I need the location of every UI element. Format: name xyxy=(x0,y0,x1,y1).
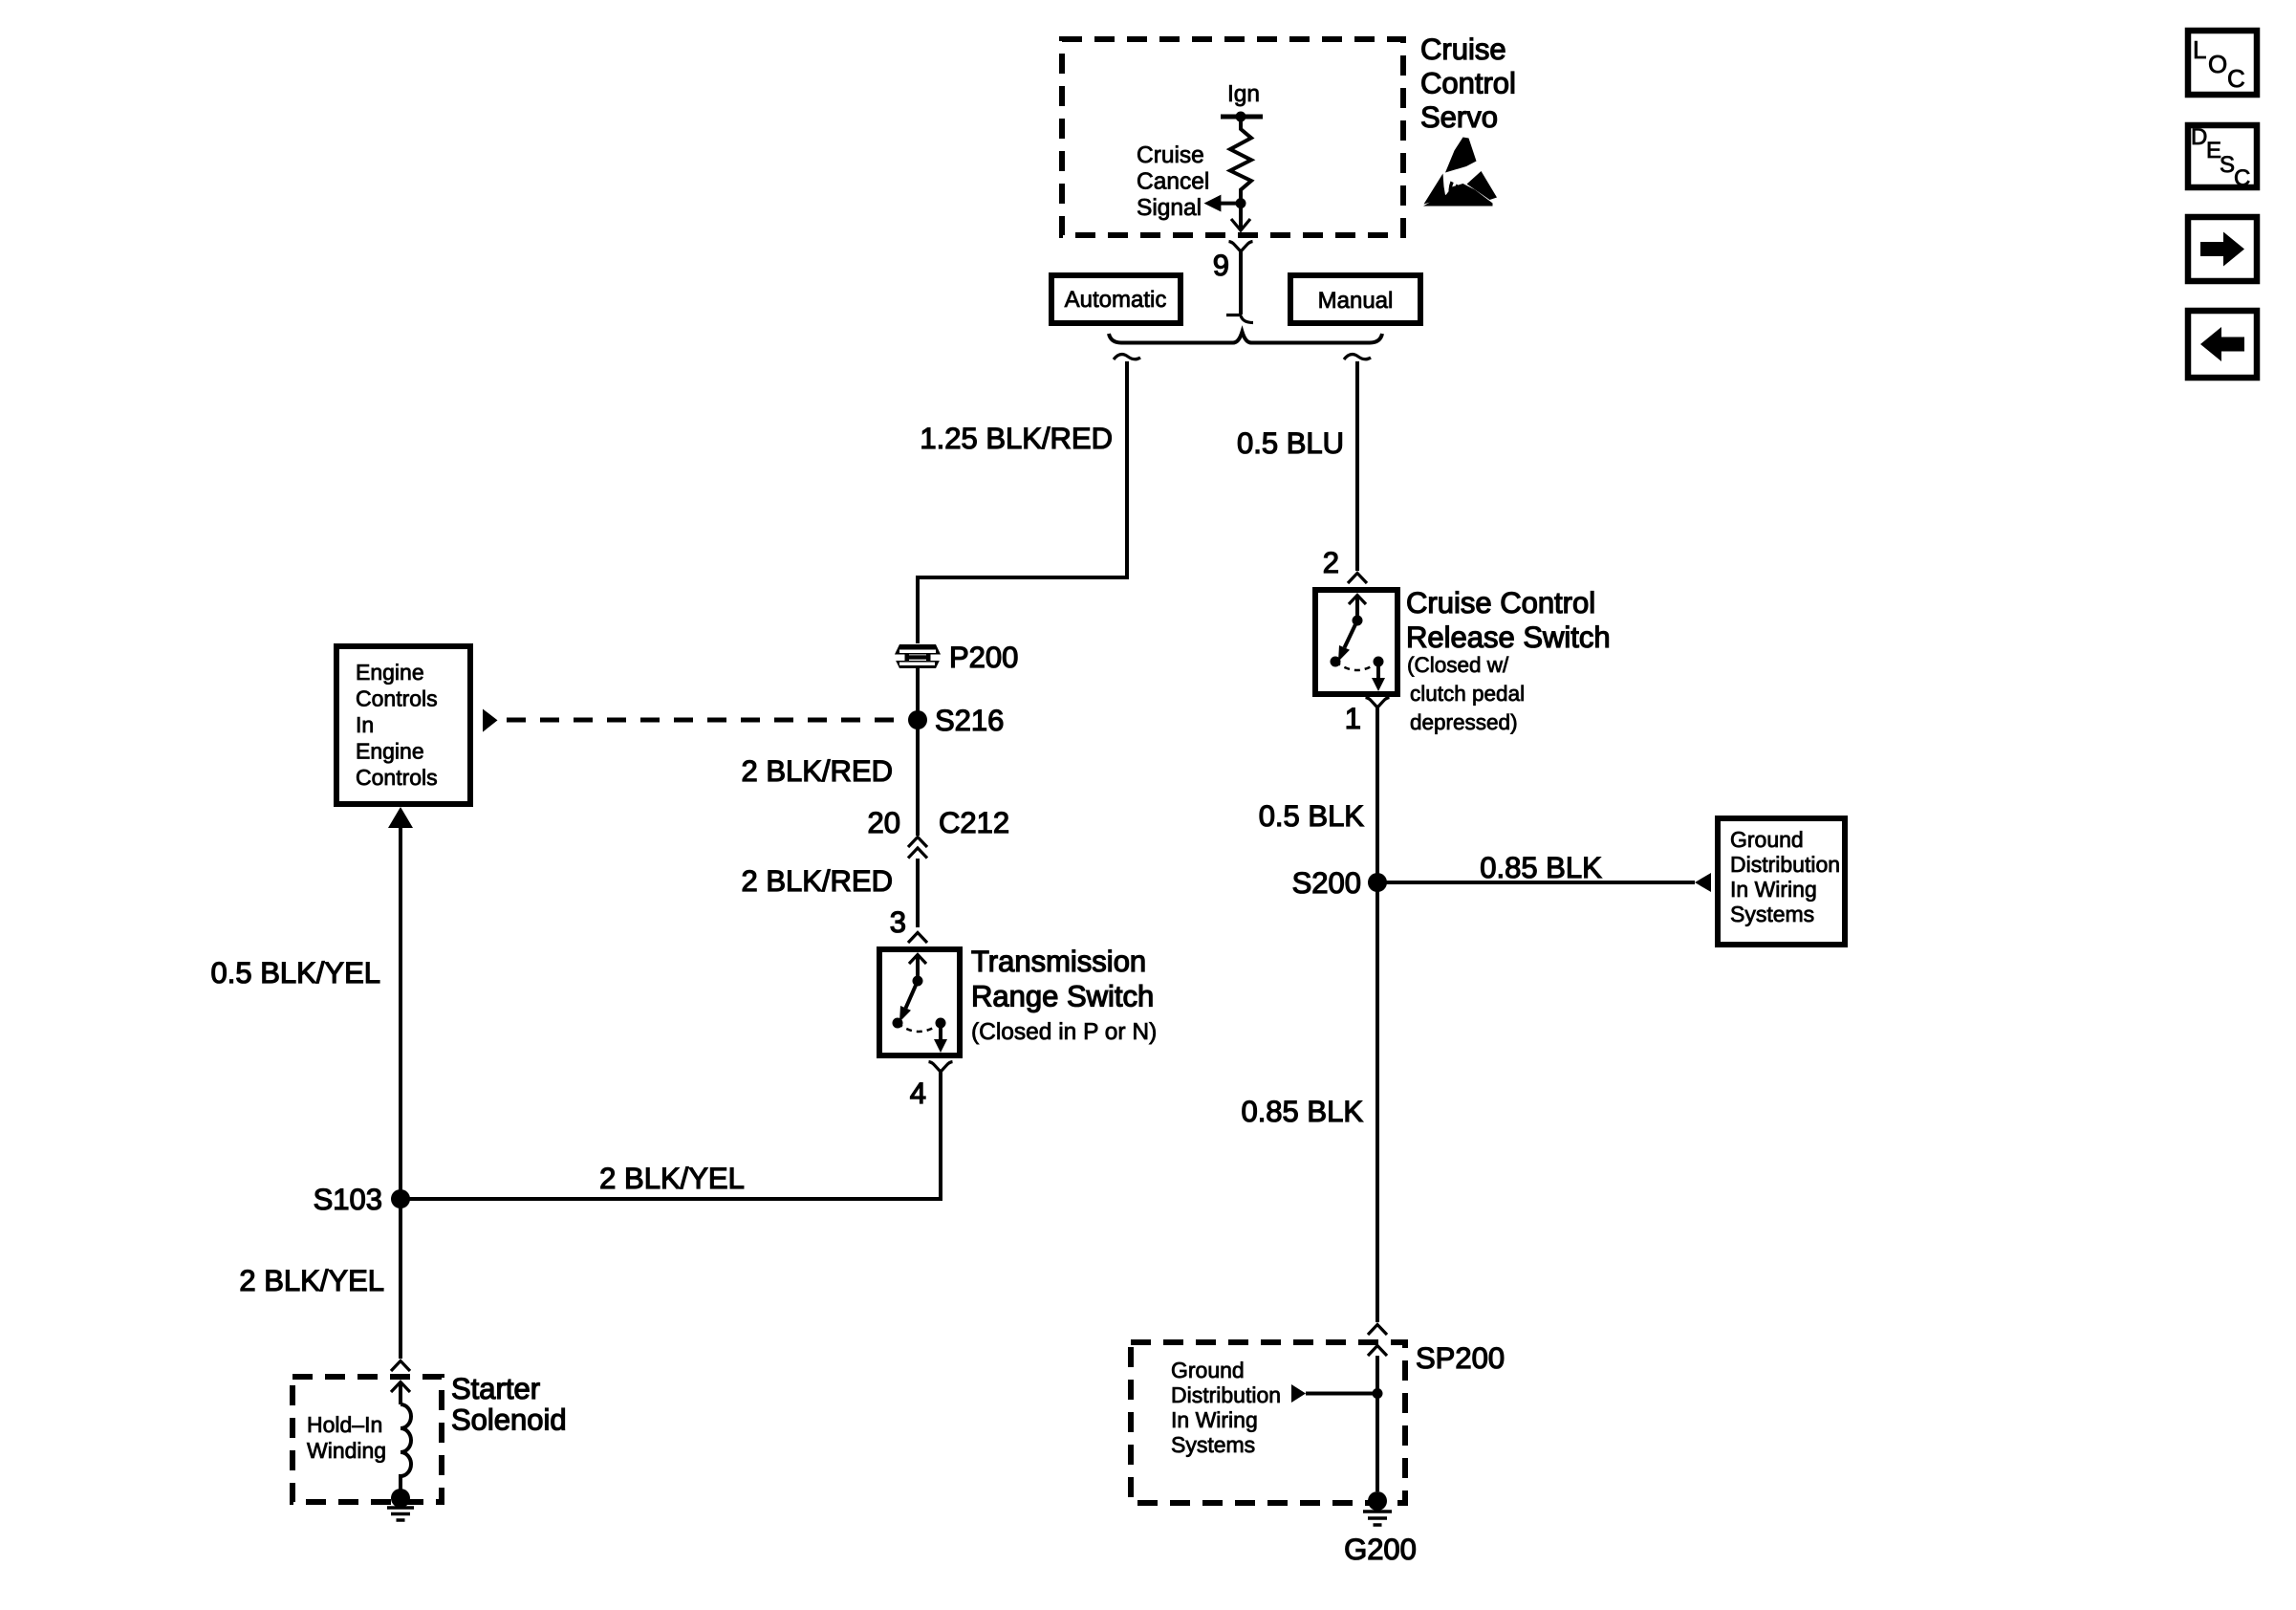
pin 9 male breakout connector xyxy=(1226,315,1253,323)
svg-text:2 BLK/YEL: 2 BLK/YEL xyxy=(599,1162,745,1195)
wire: pin 1 to S200 (0.5 BLK) xyxy=(1375,707,1379,882)
Engine Controls box text xyxy=(356,660,438,790)
splice S200 dot xyxy=(1368,873,1387,892)
wire: SP200 to G200 xyxy=(1375,1356,1379,1491)
nav icon back arrow button xyxy=(2188,311,2257,378)
svg-text:2 BLK/RED: 2 BLK/RED xyxy=(741,864,893,898)
svg-text:0.85 BLK: 0.85 BLK xyxy=(1241,1095,1363,1128)
svg-text:D: D xyxy=(2191,124,2207,150)
Ign junction dot xyxy=(1236,112,1246,122)
svg-text:G200: G200 xyxy=(1344,1533,1417,1566)
nav icon forward arrow button xyxy=(2188,217,2257,281)
svg-text:2 BLK/YEL: 2 BLK/YEL xyxy=(239,1264,384,1297)
SP200 male connector xyxy=(1368,1325,1387,1336)
svg-text:Distribution: Distribution xyxy=(1730,852,1840,877)
svg-text:P200: P200 xyxy=(949,641,1018,674)
wire: S200 branch to ground distribution (0.85 BLK) xyxy=(1377,881,1695,884)
starter solenoid male connector xyxy=(391,1361,410,1372)
svg-text:In: In xyxy=(356,712,374,737)
hold-in winding coil with entry arrow xyxy=(391,1382,411,1494)
starter solenoid case ground xyxy=(387,1489,414,1520)
wire: 0.5 BLK/YEL up to engine controls xyxy=(399,824,402,1199)
brace grouping both variants xyxy=(1109,332,1382,343)
wire: arrow to resistor junction xyxy=(1220,202,1241,206)
svg-text:Ground: Ground xyxy=(1171,1358,1245,1382)
cruise cancel signal arrow (left) xyxy=(1204,195,1222,212)
svg-text:C: C xyxy=(2234,165,2250,191)
wire: S103 down to starter solenoid xyxy=(399,1199,402,1359)
wire: left branch (1.25 BLK/RED) xyxy=(918,361,1127,643)
svg-text:Cruise Control: Cruise Control xyxy=(1406,586,1595,620)
svg-text:20: 20 xyxy=(868,806,900,839)
svg-text:S216: S216 xyxy=(935,704,1004,737)
Ign terminal bar xyxy=(1221,115,1263,120)
svg-text:In Wiring: In Wiring xyxy=(1171,1407,1258,1432)
svg-text:Engine: Engine xyxy=(356,660,424,685)
wire: S200 down to SP200 (0.85 BLK) xyxy=(1375,882,1379,1322)
wire: C212 to transmission range switch pin 3 xyxy=(916,859,920,927)
svg-text:Cruise: Cruise xyxy=(1420,33,1506,66)
wire: right branch (0.5 BLU) xyxy=(1355,361,1359,571)
svg-text:4: 4 xyxy=(910,1077,926,1110)
cruise control release switch label xyxy=(1406,586,1611,734)
engine controls reference arrow xyxy=(483,709,498,732)
svg-text:Winding: Winding xyxy=(307,1438,386,1463)
nav icon LOC button xyxy=(2188,31,2257,95)
svg-text:2 BLK/RED: 2 BLK/RED xyxy=(741,754,893,788)
transmission range switch contacts and arm xyxy=(893,955,948,1054)
G200 ground xyxy=(1363,1491,1392,1525)
svg-text:Solenoid: Solenoid xyxy=(451,1403,567,1437)
svg-text:Systems: Systems xyxy=(1730,902,1814,926)
Ground Distribution reference box xyxy=(1718,818,1845,945)
hold-in winding label xyxy=(307,1412,386,1463)
svg-text:0.85 BLK: 0.85 BLK xyxy=(1480,851,1602,884)
pin 4 female connector xyxy=(929,1062,953,1073)
svg-text:0.5 BLK: 0.5 BLK xyxy=(1259,799,1365,833)
pin 3 male connector xyxy=(908,933,927,944)
ground distribution reference arrow xyxy=(1695,873,1711,892)
svg-text:Cancel: Cancel xyxy=(1137,168,1209,194)
cruise cancel signal label xyxy=(1137,142,1209,221)
ground distribution dashed box xyxy=(1131,1342,1405,1503)
svg-text:9: 9 xyxy=(1213,249,1229,282)
svg-text:Signal: Signal xyxy=(1137,195,1202,221)
wire: servo pin 9 lead xyxy=(1239,250,1243,315)
svg-text:Release Switch: Release Switch xyxy=(1406,620,1611,654)
Engine Controls reference box xyxy=(336,646,470,804)
splice S103 dot xyxy=(391,1189,410,1208)
svg-text:Systems: Systems xyxy=(1171,1432,1255,1457)
svg-text:1.25 BLK/RED: 1.25 BLK/RED xyxy=(920,422,1113,455)
svg-text:Starter: Starter xyxy=(451,1372,540,1405)
svg-text:L: L xyxy=(2193,35,2206,64)
svg-text:Range Switch: Range Switch xyxy=(971,980,1154,1013)
svg-text:0.5 BLK/YEL: 0.5 BLK/YEL xyxy=(210,956,380,990)
wire: pin 4 down and left to S103 xyxy=(401,1072,941,1199)
svg-text:Engine: Engine xyxy=(356,739,424,764)
svg-text:Ground: Ground xyxy=(1730,827,1804,852)
svg-text:Transmission: Transmission xyxy=(971,945,1146,978)
Manual variant box xyxy=(1290,275,1420,323)
svg-text:In Wiring: In Wiring xyxy=(1730,877,1817,902)
Transmission Range Switch label xyxy=(971,945,1157,1045)
svg-text:Distribution: Distribution xyxy=(1171,1382,1281,1407)
right branch breakout connector xyxy=(1344,355,1371,359)
svg-text:Ign: Ign xyxy=(1227,81,1260,107)
dashed reference wire to engine controls xyxy=(507,718,904,723)
svg-text:S: S xyxy=(2220,152,2235,178)
svg-text:C: C xyxy=(2227,64,2245,93)
svg-text:Servo: Servo xyxy=(1420,100,1498,134)
pin 9 female connector xyxy=(1229,242,1253,252)
svg-text:Control: Control xyxy=(1420,67,1516,100)
cruise control servo label xyxy=(1420,33,1516,134)
Cruise Control Release Switch box xyxy=(1315,590,1397,694)
svg-text:0.5 BLU: 0.5 BLU xyxy=(1237,426,1344,460)
svg-text:Manual: Manual xyxy=(1318,288,1394,314)
pin 1 female connector xyxy=(1366,698,1390,708)
Ground Distribution box text xyxy=(1730,827,1840,926)
svg-text:(Closed w/: (Closed w/ xyxy=(1407,653,1509,677)
C212 inline connector chevrons xyxy=(908,838,927,859)
svg-text:3: 3 xyxy=(890,905,906,939)
svg-text:2: 2 xyxy=(1323,546,1339,579)
svg-text:depressed): depressed) xyxy=(1410,710,1518,734)
svg-text:(Closed in P or N): (Closed in P or N) xyxy=(971,1019,1157,1045)
nav icon DESC button xyxy=(2188,124,2257,191)
SP200 splice chevron inside box xyxy=(1368,1346,1387,1357)
svg-text:Hold–In: Hold–In xyxy=(307,1412,382,1437)
svg-text:1: 1 xyxy=(1345,702,1361,735)
junction dot on ground wire xyxy=(1373,1388,1383,1399)
pin 2 male connector xyxy=(1348,574,1367,584)
ground distribution internal arrow xyxy=(1291,1384,1306,1403)
svg-text:Cruise: Cruise xyxy=(1137,142,1204,168)
svg-text:Automatic: Automatic xyxy=(1065,287,1167,313)
left branch breakout connector xyxy=(1114,355,1140,359)
wire: internal arrow to ground wire xyxy=(1306,1392,1377,1396)
cruise control servo dashed box xyxy=(1062,39,1403,235)
splice S216 dot xyxy=(908,710,927,729)
svg-text:clutch pedal: clutch pedal xyxy=(1410,682,1525,706)
engine controls feed arrow xyxy=(388,807,413,828)
cruise control release switch contacts and arm xyxy=(1331,596,1386,692)
Transmission Range Switch box xyxy=(879,949,960,1055)
ground distribution dashed box text xyxy=(1171,1358,1281,1457)
wire: P200 to S216 to C212 xyxy=(916,668,920,836)
P200 grommet xyxy=(892,644,943,668)
svg-text:SP200: SP200 xyxy=(1416,1341,1505,1375)
Automatic variant box xyxy=(1051,275,1180,323)
junction dot at signal tap xyxy=(1236,198,1246,208)
svg-text:O: O xyxy=(2208,50,2227,78)
wire: down arrow to servo pin 9 xyxy=(1239,204,1243,230)
starter solenoid label xyxy=(451,1372,567,1437)
svg-text:S103: S103 xyxy=(314,1183,382,1216)
svg-text:C212: C212 xyxy=(939,806,1009,839)
svg-text:Controls: Controls xyxy=(356,765,438,790)
svg-text:S200: S200 xyxy=(1292,866,1361,900)
starter solenoid dashed box xyxy=(292,1377,442,1502)
ESD sensitive device symbol xyxy=(1423,138,1497,207)
svg-text:Controls: Controls xyxy=(356,686,438,711)
resistor (cruise cancel pull-up) xyxy=(1230,117,1251,203)
